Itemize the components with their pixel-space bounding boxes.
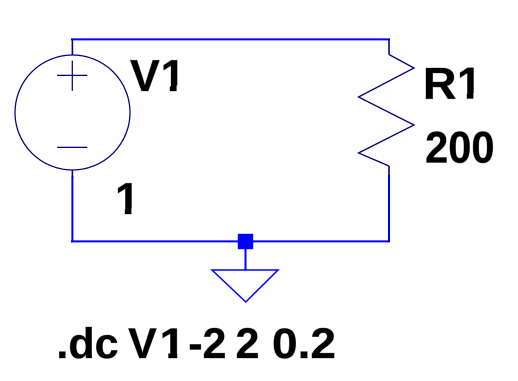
svg-text:0.2: 0.2 [272,320,336,368]
svg-text:.dc: .dc [56,320,118,368]
wire right vertical (R1 bottom pin down to bottom rail) [388,175,390,242]
node junction (bottom rail) [238,234,253,249]
wire left vertical (V1 bottom pin down to bottom rail) [71,176,73,242]
svg-text:2: 2 [236,320,260,368]
svg-text:1: 1 [160,320,186,368]
svg-text:1: 1 [115,175,140,224]
svg-text:V: V [128,320,157,368]
wire bottom (V1 bottom pin to R1 bottom pin) [71,240,390,242]
svg-text:-2: -2 [188,320,226,368]
resistor R1 (symbol) [359,39,415,177]
svg-text:V: V [130,52,160,101]
wire top (V1 top pin to R1 top pin) [71,38,390,40]
svg-text:1: 1 [457,60,482,109]
svg-text:200: 200 [425,123,494,172]
svg-text:1: 1 [161,52,186,101]
svg-text:R: R [423,60,457,109]
voltage source V1 (symbol) [15,39,130,179]
ground [212,248,278,302]
